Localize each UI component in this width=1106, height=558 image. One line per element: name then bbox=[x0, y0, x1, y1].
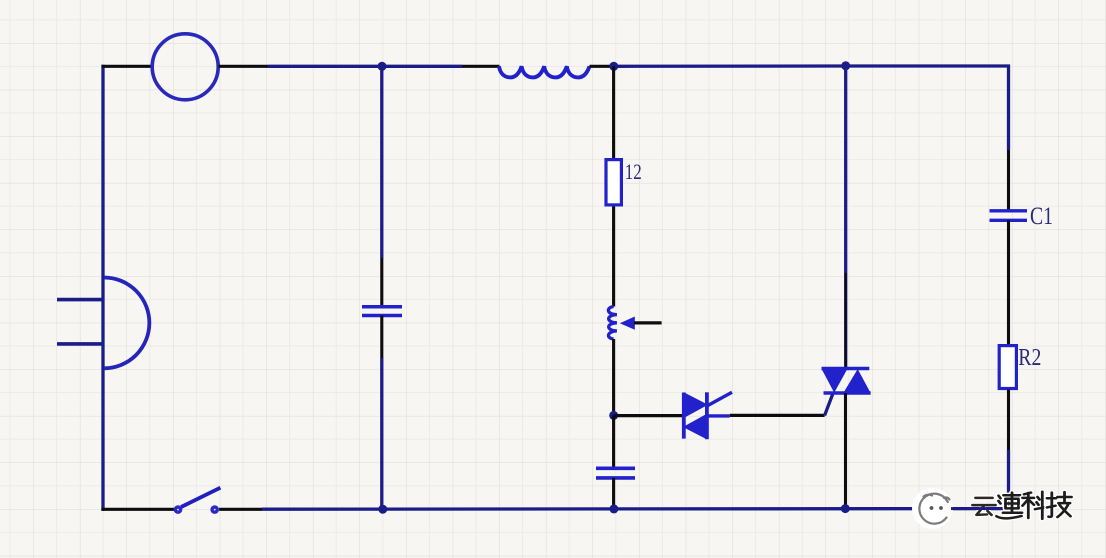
node C junction dot bbox=[841, 61, 850, 70]
watermark char2 yun2 white halo bbox=[997, 493, 1023, 519]
capacitor C1 bbox=[990, 211, 1028, 221]
watermark char2 yun2 strokes bbox=[997, 493, 1023, 519]
wire triac branch navy upper bbox=[844, 66, 847, 369]
node G junction dot bbox=[841, 504, 850, 513]
plug P1 semicircle bbox=[104, 278, 149, 369]
wire right vertical black lower bbox=[1007, 390, 1010, 451]
switch S1 bbox=[174, 488, 221, 514]
wire right of circle black segment bbox=[219, 65, 269, 68]
wire node B to node C navy bbox=[614, 64, 846, 68]
wire black before inductor bbox=[462, 65, 500, 68]
watermark logo white halo bbox=[912, 488, 953, 529]
watermark char4 ji strokes bbox=[1047, 492, 1072, 517]
wire triac branch black core bbox=[845, 273, 847, 369]
watermark char4 ji white halo bbox=[1047, 492, 1072, 517]
plug P1 prong upper bbox=[57, 298, 103, 302]
svg-text:C1: C1 bbox=[1030, 203, 1053, 230]
wire redraw over char1 bbox=[951, 507, 991, 510]
watermark logo swirl bbox=[919, 494, 949, 524]
resistor R2 bbox=[999, 346, 1016, 389]
wire bottom-left black segment bbox=[101, 508, 174, 511]
capacitor C3 bottom bbox=[596, 468, 635, 478]
node B junction dot bbox=[609, 62, 618, 71]
potentiometer wiper arrow bbox=[620, 317, 635, 330]
watermark char3 ke white halo bbox=[1023, 492, 1047, 519]
wire potentiometer to node D black bbox=[612, 339, 615, 415]
inductor L1 bbox=[499, 66, 590, 77]
wire node C to top-right corner bbox=[846, 66, 1009, 150]
wire middle vertical black above cap bbox=[380, 258, 383, 307]
plug P1 prong lower bbox=[57, 342, 103, 346]
wire top-left black segment bbox=[102, 65, 153, 68]
wire black after inductor bbox=[590, 65, 613, 68]
watermark logo dots bbox=[930, 506, 943, 510]
wire top navy segment to node A bbox=[268, 65, 382, 68]
svg-text:12: 12 bbox=[625, 159, 642, 184]
wire bottom cap to bottom rail bbox=[612, 478, 615, 509]
svg-text:R2: R2 bbox=[1018, 345, 1041, 371]
wire node D to diac black bbox=[614, 414, 683, 417]
wire diac to triac gate black bbox=[730, 414, 825, 417]
wire node D to bottom cap black bbox=[612, 415, 615, 468]
wire middle vertical navy upper bbox=[380, 66, 383, 258]
wire triac branch black lower bbox=[844, 393, 847, 505]
node E junction dot bbox=[378, 505, 387, 514]
potentiometer wiper stub wire bbox=[634, 321, 662, 324]
wire R1 to potentiometer black bbox=[612, 207, 615, 307]
wire left vertical bbox=[101, 65, 104, 511]
resistor R1 bbox=[606, 160, 621, 205]
wire middle vertical navy lower bbox=[380, 358, 383, 509]
triac gate diagonal bbox=[825, 393, 834, 416]
wire bottom rail navy bbox=[262, 507, 1009, 511]
capacitor C2 mid bbox=[362, 307, 402, 316]
watermark char1 yun white halo bbox=[976, 498, 993, 515]
node D junction dot bbox=[609, 411, 618, 420]
wire right vertical navy bottom bbox=[1007, 450, 1010, 509]
wire node A to inductor bbox=[382, 65, 462, 68]
potentiometer RP squiggle bbox=[608, 307, 617, 340]
triac Q1 bbox=[822, 369, 871, 394]
node A junction dot bbox=[378, 62, 387, 71]
node F junction dot bbox=[609, 504, 618, 513]
wire middle vertical black below cap bbox=[380, 316, 383, 359]
wire switch to bottom mid black bbox=[219, 508, 262, 511]
wire right vertical black mid bbox=[1007, 220, 1010, 344]
watermark char1 yun strokes bbox=[973, 498, 996, 515]
watermark char3 ke strokes bbox=[1023, 492, 1047, 519]
diac D1 bbox=[683, 392, 732, 439]
lamp/source circle bbox=[152, 34, 218, 100]
wire R1 branch vertical black upper bbox=[612, 66, 615, 158]
wire right vertical black upper bbox=[1007, 150, 1010, 211]
